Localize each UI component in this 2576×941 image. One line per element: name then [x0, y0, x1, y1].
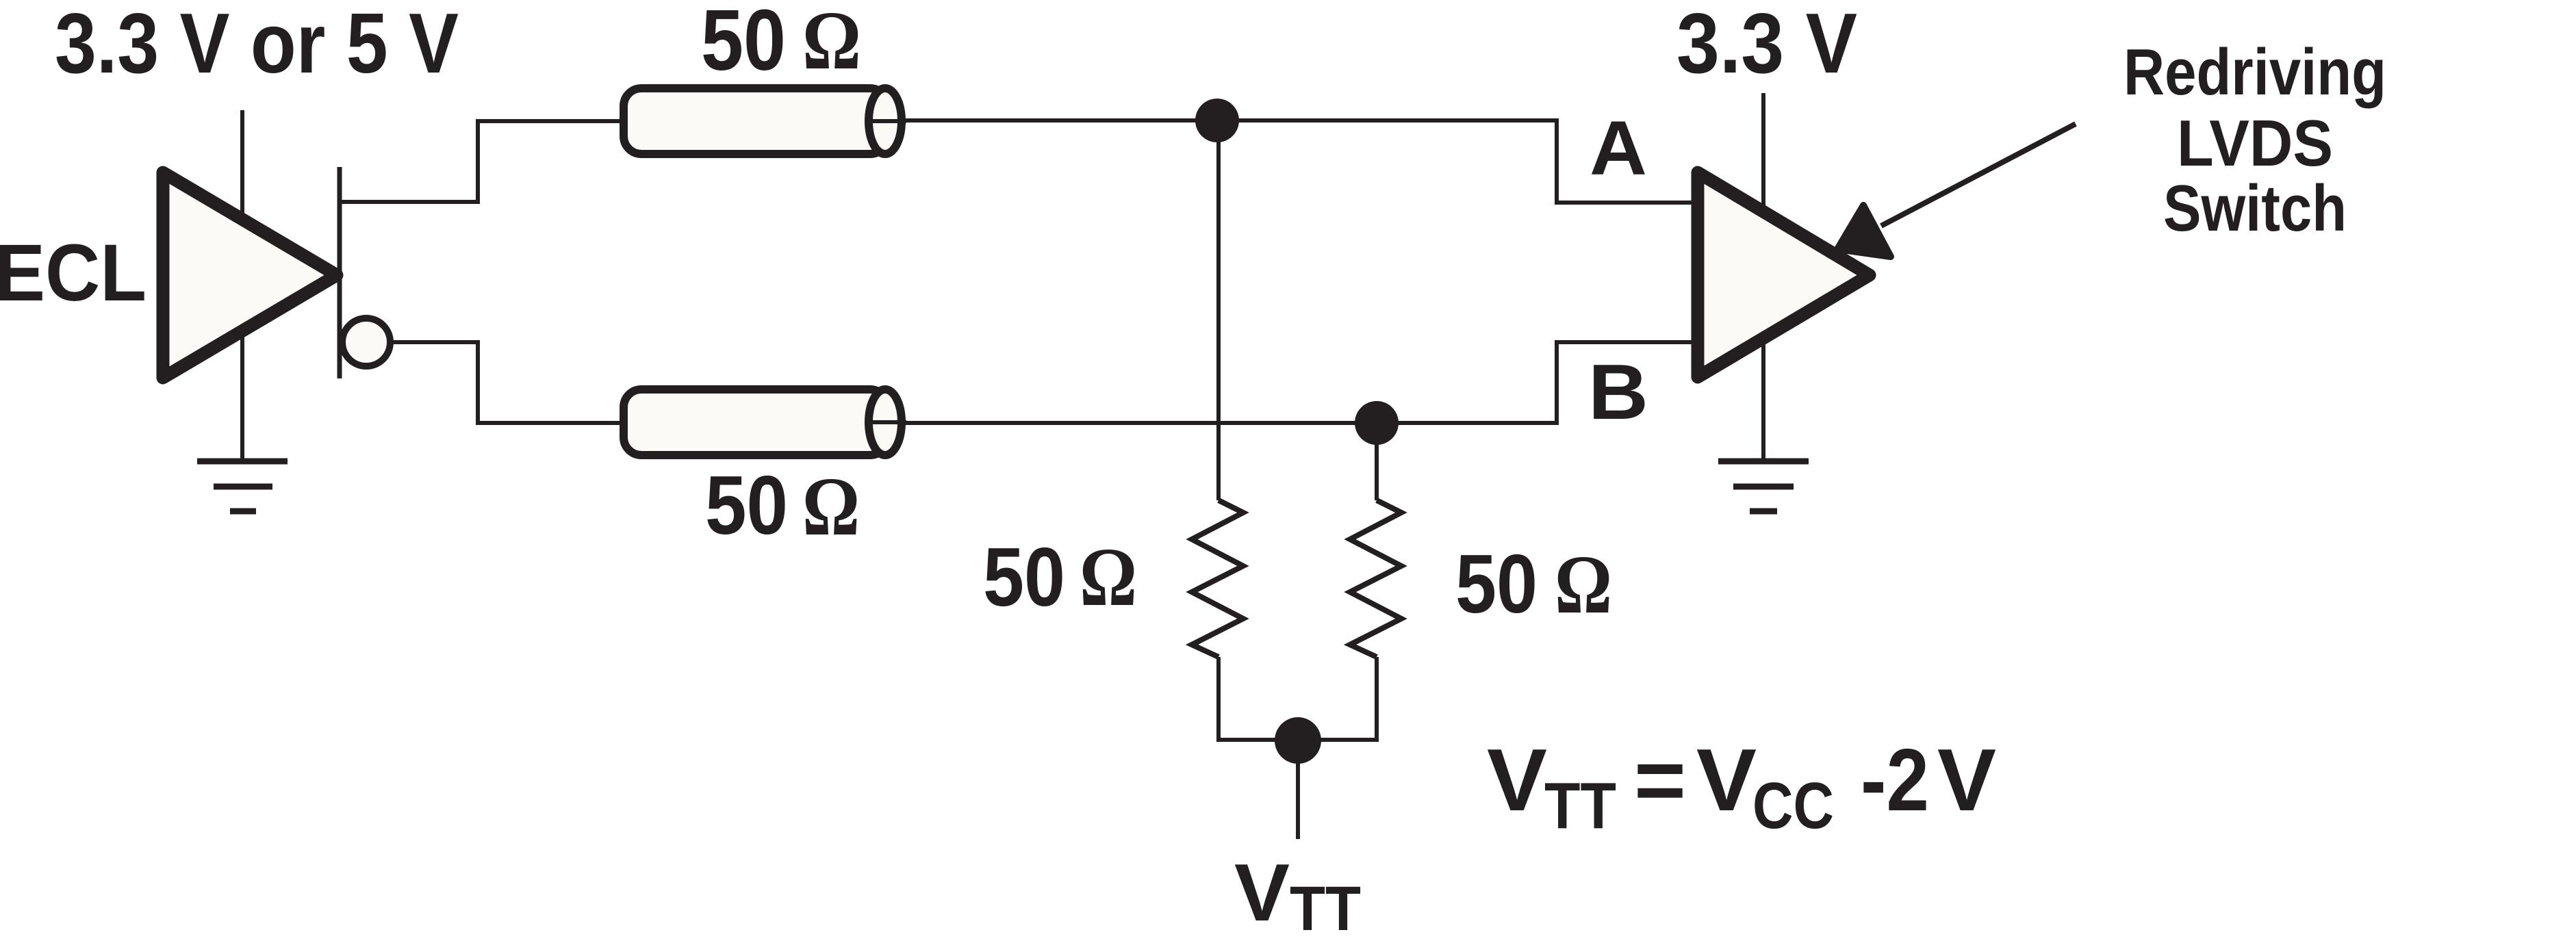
svg-text:3.3 V or 5 V: 3.3 V or 5 V [55, 0, 459, 91]
svg-text:V: V [1696, 731, 1757, 829]
svg-text:=: = [1634, 731, 1686, 829]
wire Qbar output bottom [390, 342, 623, 423]
resistor R2 [1350, 500, 1401, 657]
svg-text:TT: TT [1544, 769, 1616, 842]
svg-text:Ω: Ω [1555, 539, 1612, 631]
wire VCC receiver through to ground [1761, 93, 1765, 461]
wire R1 bottom [1216, 657, 1221, 742]
resistor R1 [1192, 500, 1243, 657]
svg-text:Ω: Ω [802, 461, 860, 553]
junction dot A [1195, 99, 1239, 142]
svg-text:TT: TT [1290, 874, 1361, 941]
wire VCC to ground through ECL driver [240, 110, 244, 461]
svg-text:50: 50 [701, 0, 786, 88]
svg-text:-2: -2 [1861, 731, 1929, 829]
wire dot B down to R2 [1375, 423, 1379, 500]
svg-text:CC: CC [1752, 769, 1834, 842]
svg-text:V: V [1487, 731, 1547, 829]
svg-text:V: V [1937, 731, 1996, 829]
junction node VTT [1275, 717, 1321, 764]
svg-text:LVDS: LVDS [2177, 107, 2333, 180]
wire VTT stub [1296, 740, 1300, 839]
ground receiver [1718, 461, 1809, 511]
wire B run [620, 342, 1695, 423]
svg-text:Ω: Ω [1080, 531, 1137, 623]
receiver triangle U2 (LVDS switch) [1698, 172, 1870, 377]
svg-text:50: 50 [1455, 537, 1538, 630]
inverting bubble [342, 318, 390, 366]
svg-text:ECL: ECL [0, 228, 146, 318]
transmission line TL1 [624, 88, 906, 154]
junction dot B [1355, 401, 1399, 445]
wire A run [620, 120, 1695, 203]
svg-text:B: B [1588, 349, 1648, 436]
svg-text:Redriving: Redriving [2124, 36, 2386, 109]
annotation arrow line [1881, 124, 2076, 226]
wire R2 bottom [1375, 657, 1379, 742]
wire Q output top [339, 121, 623, 202]
svg-text:A: A [1590, 105, 1647, 191]
svg-text:Switch: Switch [2163, 172, 2347, 245]
wire dot A down to R1 [1216, 120, 1221, 500]
svg-text:Ω: Ω [802, 0, 861, 87]
wire VTT bus [1216, 738, 1379, 742]
annotation arrowhead [1837, 205, 1891, 257]
svg-text:50: 50 [705, 459, 788, 552]
ground ECL [197, 461, 288, 511]
svg-text:50: 50 [983, 530, 1065, 623]
svg-text:3.3 V: 3.3 V [1676, 0, 1857, 91]
transmission line TL2 [624, 389, 906, 455]
svg-text:V: V [1234, 847, 1290, 938]
ECL output bar [337, 167, 342, 378]
ECL driver triangle U1 [163, 172, 337, 378]
